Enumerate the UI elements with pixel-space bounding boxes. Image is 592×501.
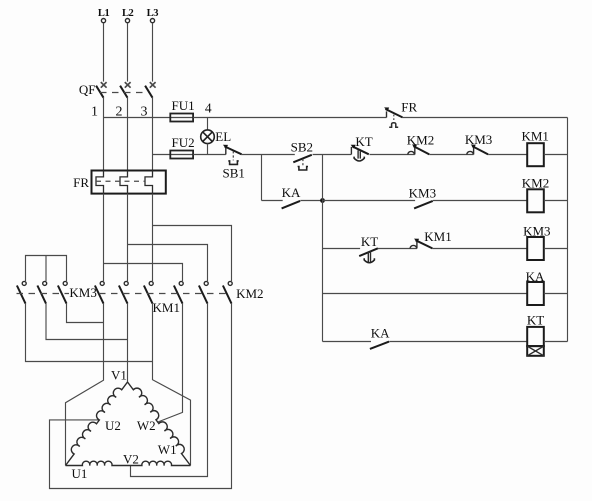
contact FR NC (top rail) (384, 99, 417, 127)
contact KM1 NC row3 (410, 229, 452, 248)
fuse FU2 (170, 135, 194, 159)
svg-text:FU2: FU2 (172, 135, 195, 150)
wire lamp to row1 (207, 144, 209, 155)
wire KT row3 to KM1 contact (378, 248, 417, 250)
svg-text:KM3: KM3 (465, 132, 492, 147)
wire L3 branch to KM2 pole3 (153, 226, 232, 282)
terminal L3 (147, 8, 159, 82)
contactor KM1 pole 1 (95, 281, 104, 303)
svg-text:SB2: SB2 (291, 139, 313, 154)
wire coil KM3 to right bus (544, 248, 568, 250)
coil KM3 (523, 224, 550, 260)
svg-text:FU1: FU1 (172, 98, 195, 113)
coil KM2 (522, 176, 549, 213)
wire KM3 contact to coil KM1 (488, 154, 527, 156)
wire SB2 to KT (313, 154, 352, 156)
right bus (567, 118, 569, 342)
wire KM2 pole1 to W2 tap (158, 304, 182, 422)
svg-text:KT: KT (527, 313, 544, 328)
wire top rail right (403, 117, 568, 119)
contact KM2 NC row1 (407, 133, 434, 155)
motor winding left side V1-U2-U1 (66, 382, 128, 466)
wire top rail to FR contact (193, 117, 386, 119)
coil KT (527, 313, 544, 356)
button SB1 (NC) (222, 145, 244, 181)
svg-text:EL: EL (215, 129, 231, 144)
wire L3 below QF (152, 98, 154, 171)
svg-text:QF: QF (79, 82, 96, 97)
svg-text:KM2: KM2 (407, 133, 434, 148)
contact KM3 NC row1 (465, 132, 492, 155)
svg-text:KM3: KM3 (409, 185, 436, 200)
wire L1 FR to KM1 pole1 (103, 194, 105, 281)
svg-text:L1: L1 (98, 8, 110, 19)
svg-text:KM1: KM1 (153, 300, 180, 315)
contactor KM3 pole 1 (17, 281, 26, 303)
contactor KM1 pole 3 (144, 281, 153, 303)
svg-text:KM2: KM2 (236, 286, 263, 301)
wire KM1 pole2 to V1 apex (127, 304, 129, 382)
contactor KM2 pole 2 (199, 281, 208, 303)
motor winding bottom side U1-V2-W1 (66, 461, 191, 465)
breaker QF (79, 82, 156, 119)
svg-text:L2: L2 (122, 8, 134, 19)
wire row1 from L3 (153, 154, 171, 156)
svg-text:SB1: SB1 (222, 165, 244, 180)
motor winding right side V1-W2-W1 (128, 382, 191, 466)
linkage dashes KM3 (17, 293, 70, 295)
wire L2 below QF (127, 98, 129, 171)
coil KM1 (521, 128, 548, 166)
wire L2 branch to KM2 pole2 (128, 245, 208, 282)
wire row3 left (323, 248, 361, 250)
svg-text:KA: KA (282, 185, 301, 200)
wire KM1 pole1 to U1 (66, 304, 104, 466)
contactor KM2 pole 3 (223, 281, 232, 303)
wire KA row2 left (262, 200, 283, 202)
wire KM3 pole2 bottom (46, 304, 128, 340)
wire L1 branch to KM2 pole1 (104, 264, 183, 282)
wire row2 to KM3 contact (323, 200, 416, 202)
svg-text:U1: U1 (72, 466, 88, 481)
wire KT to KM2 contact (370, 154, 415, 156)
svg-text:L3: L3 (147, 8, 159, 19)
wire SB1 to SB2 (242, 154, 295, 156)
wire coil KM2 to right bus (544, 200, 568, 202)
thermal relay FR heater box (73, 171, 166, 194)
svg-text:FR: FR (73, 175, 89, 190)
svg-text:U2: U2 (105, 418, 121, 433)
wire row4 (323, 293, 528, 295)
svg-text:KM1: KM1 (424, 229, 451, 244)
wire KM2 to KM3 contact (429, 154, 473, 156)
svg-text:KT: KT (361, 234, 378, 249)
svg-text:KT: KT (355, 134, 372, 149)
wire KM3 row2 to coil KM2 (433, 200, 527, 202)
wire KA row5 to coil KT (389, 341, 527, 343)
wire L2 FR to KM1 pole2 (127, 194, 129, 281)
wire KA to junction (300, 200, 322, 202)
wire node 4 to lamp (207, 118, 209, 131)
lamp EL (201, 129, 232, 144)
fuse FU1 (170, 98, 194, 122)
svg-text:4: 4 (205, 100, 212, 115)
wire KM2 pole3 to U2 tap (50, 304, 232, 489)
coil KA (526, 269, 545, 305)
wire coil KA to right bus (544, 293, 568, 295)
star bus KM3 tops (26, 256, 67, 282)
wire row5 left (323, 341, 372, 343)
svg-text:W2: W2 (137, 418, 156, 433)
junction dot (320, 198, 325, 203)
wire FU2 to SB1 (193, 154, 226, 156)
svg-text:W1: W1 (158, 442, 177, 457)
svg-text:FR: FR (401, 99, 417, 114)
contact KT row1 (NO delayed close) (351, 134, 373, 161)
svg-text:V2: V2 (123, 452, 139, 467)
wire coil KM1 to right bus (544, 154, 568, 156)
linkage dashes KM1 KM2 (99, 293, 230, 295)
svg-text:KM1: KM1 (521, 128, 548, 143)
contactor KM3 pole 2 (37, 281, 46, 303)
left control bus (322, 155, 324, 342)
contact KA row5 (NO) (370, 326, 390, 349)
terminal L1 (98, 8, 110, 82)
contact KA row2 (NO) (282, 185, 301, 208)
wire SB1 branch down (261, 155, 263, 201)
wire KM3 pole3 bottom (67, 304, 104, 323)
wire KM3 pole1 bottom (26, 304, 153, 362)
contactor KM2 pole 1 (174, 281, 183, 303)
svg-text:V1: V1 (111, 368, 127, 383)
wire KM1 pole3 to W1 (153, 304, 191, 466)
wire KM1 row3 to coil KM3 (432, 248, 527, 250)
contactor KM3 pole 3 (58, 281, 67, 303)
svg-text:1: 1 (91, 104, 98, 119)
contact KT row3 (NC delayed) (359, 234, 378, 263)
wire L1 below QF (103, 98, 105, 171)
svg-text:KM3: KM3 (69, 285, 96, 300)
terminal L2 (122, 8, 134, 82)
contact KM3 row2 (NO) (409, 185, 436, 208)
svg-text:KA: KA (371, 326, 390, 341)
button SB2 (NO) (291, 139, 313, 170)
wire coil KT to right bus (544, 341, 568, 343)
wire KM2 pole2 to V2 tap (131, 304, 208, 477)
wire top rail left (104, 117, 171, 119)
wire L3 FR to KM1 pole3 (152, 194, 154, 281)
contactor KM1 pole 2 (119, 281, 128, 303)
